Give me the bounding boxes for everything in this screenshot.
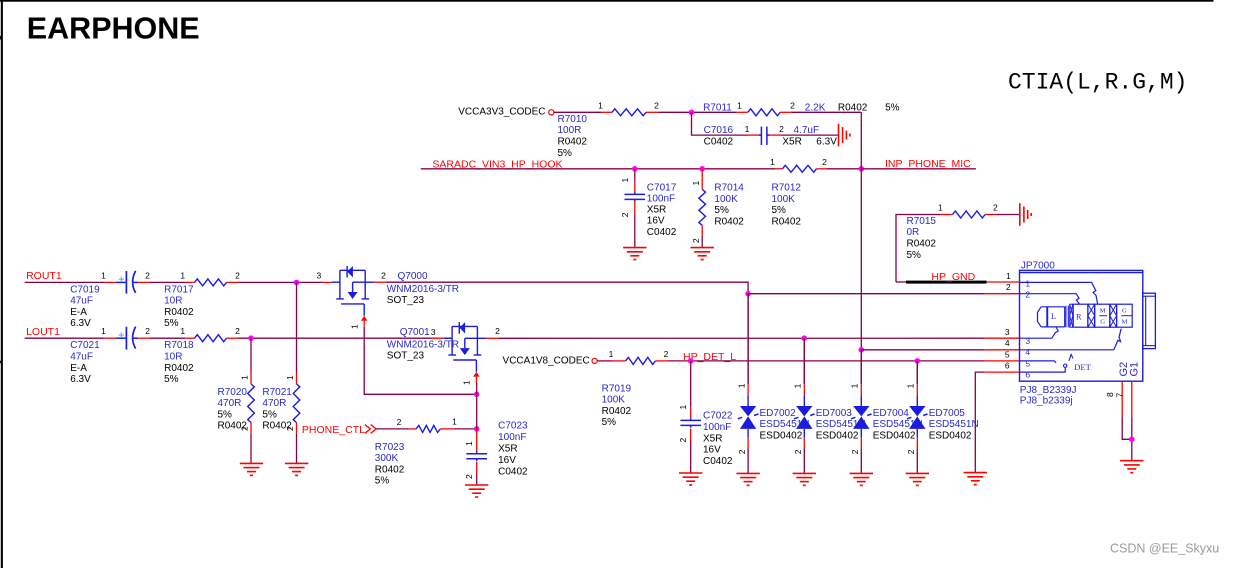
jack pin 3 leader: [1020, 328, 1059, 339]
pin 1 of R7015: [940, 214, 953, 216]
svg-text:R7017: R7017: [164, 284, 194, 295]
svg-text:ED7004: ED7004: [873, 408, 910, 419]
transistor Q7001: [444, 322, 486, 372]
ground under ED7005: [906, 473, 929, 485]
svg-text:ESD0402: ESD0402: [760, 430, 803, 441]
wire HP_GND: [896, 281, 907, 283]
svg-text:E-A: E-A: [70, 363, 87, 374]
junction INP_PHONE_MIC node: [859, 166, 865, 172]
svg-text:1: 1: [285, 375, 295, 380]
svg-text:C7019: C7019: [70, 284, 100, 295]
junction ED7005 tap: [915, 358, 921, 364]
ground after C7016 (rotated): [839, 124, 850, 147]
pin 1 of C7019: [105, 281, 116, 283]
junction pin4 branch: [859, 347, 865, 353]
wire HP_DET_L: [668, 360, 985, 362]
svg-text:6.3V: 6.3V: [70, 318, 91, 329]
wire G2 to G1 tie: [1122, 417, 1132, 440]
wire INP_PHONE_MIC stub: [861, 168, 976, 170]
svg-text:VCCA1V8_CODEC: VCCA1V8_CODEC: [503, 356, 590, 367]
resistor R7018: [195, 335, 227, 342]
svg-text:5: 5: [1025, 359, 1030, 369]
svg-text:1: 1: [350, 324, 360, 329]
junction ED7003 tap: [802, 335, 808, 341]
svg-text:5%: 5%: [714, 205, 729, 216]
svg-text:5%: 5%: [262, 409, 277, 420]
offpage connector PHONE_CTL: [365, 425, 376, 434]
svg-text:2: 2: [737, 449, 747, 454]
diode ED7004: [860, 350, 862, 384]
svg-text:ESD0402: ESD0402: [873, 430, 916, 441]
svg-text:R0402: R0402: [602, 406, 632, 417]
svg-text:R7019: R7019: [602, 383, 632, 394]
capacitor C7016: [759, 127, 769, 145]
pin 3 of Q7000: [323, 281, 332, 283]
wire to jack pin 4: [861, 349, 984, 351]
junction C7017 tap: [632, 166, 638, 172]
pin 1 of R7019: [613, 360, 626, 362]
pin 8 of JP7000: [1121, 381, 1123, 416]
wire C7019.2 to R7017.1: [149, 281, 185, 283]
svg-text:2: 2: [654, 101, 659, 111]
svg-text:470R: 470R: [262, 398, 286, 409]
wire C7017.1: [634, 169, 636, 181]
junction R7023/C7023 node: [474, 426, 480, 432]
jack plug tip L section: [1038, 307, 1042, 327]
svg-text:R0402: R0402: [907, 239, 937, 250]
svg-text:5%: 5%: [602, 417, 617, 428]
svg-text:7: 7: [1115, 393, 1125, 398]
jack plug G/M section: [1117, 304, 1133, 327]
wire C7022.2 to ground: [690, 441, 692, 473]
svg-text:2: 2: [691, 238, 701, 243]
svg-text:2: 2: [1025, 290, 1030, 300]
svg-text:R7021: R7021: [262, 387, 292, 398]
svg-text:2: 2: [790, 101, 795, 111]
svg-text:2: 2: [793, 449, 803, 454]
capacitor C7022: [680, 418, 701, 428]
svg-text:C0402: C0402: [498, 467, 528, 478]
svg-text:100K: 100K: [714, 194, 738, 205]
jack pin 6 leader with switch contact: [1020, 368, 1066, 373]
wire R7020 to ground: [250, 434, 252, 463]
capacitor C7023: [466, 451, 487, 461]
svg-text:5%: 5%: [558, 148, 573, 159]
svg-text:R7018: R7018: [164, 340, 194, 351]
svg-text:DET: DET: [1074, 362, 1091, 372]
svg-text:470R: 470R: [218, 398, 242, 409]
svg-text:3: 3: [1005, 327, 1010, 337]
jack plug hatch 2: [1110, 304, 1117, 327]
junction G tie: [1129, 437, 1135, 443]
svg-text:10R: 10R: [164, 352, 182, 363]
svg-text:16V: 16V: [703, 445, 721, 456]
svg-text:R0402: R0402: [218, 421, 248, 432]
wire C7023.2 to ground: [476, 475, 478, 485]
wire VCCA3V3_CODEC to R7010.1: [554, 111, 602, 113]
wire G1 to ground: [1131, 417, 1133, 461]
svg-text:5%: 5%: [164, 318, 179, 329]
svg-text:WNM2016-3/TR: WNM2016-3/TR: [387, 284, 459, 295]
svg-text:100nF: 100nF: [703, 422, 731, 433]
svg-text:1: 1: [938, 202, 943, 212]
svg-text:1: 1: [462, 380, 472, 385]
svg-text:2: 2: [145, 326, 150, 336]
pin 1 of C7022: [690, 407, 692, 418]
pin 1 of R7014: [701, 169, 703, 190]
wire R7021 to ground: [296, 434, 298, 463]
svg-text:2: 2: [145, 270, 150, 280]
junction jack pin 2 branch: [745, 291, 751, 297]
svg-text:R7012: R7012: [772, 183, 802, 194]
svg-text:ED7002: ED7002: [760, 408, 797, 419]
svg-text:100R: 100R: [558, 125, 582, 136]
jack pin 4 leader: [1020, 329, 1122, 350]
pin 1 of C7021: [105, 337, 116, 339]
svg-text:2: 2: [850, 449, 860, 454]
ground under ED7002: [736, 473, 759, 485]
svg-text:1: 1: [180, 270, 185, 280]
svg-text:M: M: [1100, 307, 1106, 314]
svg-text:4: 4: [1025, 347, 1030, 357]
svg-text:C7021: C7021: [70, 340, 100, 351]
svg-text:5: 5: [1005, 349, 1010, 359]
svg-text:R7010: R7010: [558, 114, 588, 125]
ground under R7014: [691, 248, 714, 260]
pin 2 of R7021: [296, 423, 298, 435]
pin 2 of R7020: [250, 423, 252, 435]
pin 2 of C7017: [634, 202, 636, 215]
wire ED7005 column upper: [916, 361, 918, 384]
svg-text:R7023: R7023: [375, 442, 405, 453]
jack plug R section: [1073, 304, 1088, 327]
junction node R7010/R7011/C7016: [689, 110, 695, 116]
svg-text:1: 1: [737, 101, 742, 111]
svg-text:47uF: 47uF: [70, 296, 93, 307]
svg-text:1: 1: [745, 124, 750, 134]
svg-text:G: G: [1122, 307, 1127, 314]
resistor R7019: [626, 357, 656, 364]
pin 1 of R7012: [775, 168, 783, 170]
svg-text:1: 1: [101, 270, 106, 280]
svg-text:R7015: R7015: [907, 216, 937, 227]
svg-text:6: 6: [1005, 361, 1010, 371]
svg-text:2: 2: [397, 417, 402, 427]
pin 2 of R7015: [985, 214, 996, 216]
pin 2 of C7021: [138, 337, 149, 339]
pin 2 of C7019: [138, 281, 149, 283]
page border frame: [0, 0, 1214, 2]
diode ED7002: [747, 294, 749, 384]
svg-text:ED7003: ED7003: [816, 408, 853, 419]
diode ED7003: [803, 338, 805, 384]
junction gate tie: [474, 392, 480, 398]
ground under ED7003: [793, 473, 816, 485]
svg-text:2: 2: [620, 212, 630, 217]
svg-text:1: 1: [180, 326, 185, 336]
svg-text:5%: 5%: [164, 374, 179, 385]
svg-text:2: 2: [664, 349, 669, 359]
transistor Q7000: [332, 266, 374, 316]
wire R7017.2 to Q7000.3: [238, 281, 323, 283]
pin 1 of C7023: [476, 429, 478, 452]
svg-text:1: 1: [793, 383, 803, 388]
svg-text:EARPHONE: EARPHONE: [27, 12, 200, 46]
pin 3 of Q7001: [432, 337, 453, 339]
ground pin6: [964, 473, 987, 485]
wire SARADC_VIN3_HP_HOOK: [421, 168, 775, 170]
svg-text:ED7005: ED7005: [929, 408, 966, 419]
ground after R7015 (rotated): [1020, 203, 1031, 226]
svg-text:1: 1: [240, 375, 250, 380]
net HP_GND thick bus: [906, 281, 987, 284]
svg-text:PHONE_CTL: PHONE_CTL: [302, 424, 365, 436]
wire ED7002 column upper: [747, 294, 749, 384]
svg-text:1: 1: [678, 405, 688, 410]
pin 2 of C7016: [768, 134, 781, 136]
resistor R7017: [195, 279, 227, 286]
pin 2 of R7019: [656, 360, 669, 362]
port VCCA3V3_CODEC: [549, 110, 554, 115]
svg-text:1: 1: [770, 157, 775, 167]
wire net INP_PHONE_MIC vertical: [792, 111, 862, 113]
svg-text:SOT_23: SOT_23: [387, 295, 425, 306]
svg-text:1: 1: [850, 383, 860, 388]
ground under jack: [1120, 461, 1143, 473]
resistor R7021: [293, 384, 300, 423]
wire R7014.2 to ground: [701, 236, 703, 247]
pin 1 of R7021: [296, 373, 298, 385]
svg-text:C7017: C7017: [647, 182, 677, 193]
jack pin 1 leader: [1020, 282, 1098, 304]
svg-text:R0402: R0402: [558, 137, 588, 148]
capacitor C7017: [625, 192, 646, 202]
resistor R7012: [783, 165, 817, 172]
wire Q7001.2 to jack pin 3: [499, 337, 985, 339]
wire ROUT1: [25, 281, 105, 283]
svg-text:R: R: [1076, 312, 1082, 321]
pin 1 of C7016: [749, 134, 760, 136]
svg-text:Q7001: Q7001: [400, 327, 430, 338]
jack plug hatch 1: [1088, 304, 1095, 327]
svg-text:C0402: C0402: [704, 136, 734, 147]
pin 2 of R7023: [408, 428, 416, 430]
pin 1 of R7023: [441, 428, 455, 430]
resistor R7014: [699, 189, 706, 225]
resistor R7010: [612, 109, 646, 116]
jack plug collar: [1066, 306, 1068, 328]
svg-text:4: 4: [1005, 338, 1010, 348]
wire R7023.1 to gate node: [454, 428, 477, 430]
svg-text:16V: 16V: [647, 216, 665, 227]
wire Q7000 gate to tie: [364, 327, 477, 394]
svg-text:R0402: R0402: [772, 216, 802, 227]
svg-text:1: 1: [1006, 271, 1011, 281]
svg-text:2: 2: [495, 326, 500, 336]
svg-text:5%: 5%: [772, 205, 787, 216]
svg-text:Q7000: Q7000: [398, 271, 428, 282]
wire VCCA1V8 to R7019: [597, 360, 612, 362]
pin 1 of R7018: [185, 337, 195, 339]
svg-text:M: M: [1121, 319, 1127, 326]
svg-text:5%: 5%: [218, 409, 233, 420]
pin 2 of C7022: [690, 429, 692, 441]
svg-text:16V: 16V: [498, 455, 516, 466]
svg-text:5%: 5%: [375, 476, 390, 487]
svg-text:C7016: C7016: [704, 125, 734, 136]
capacitor C7019 (polarized): [116, 271, 138, 294]
pin 2 of R7014: [701, 225, 703, 236]
svg-text:100K: 100K: [602, 395, 626, 406]
pin 1 of R7020: [250, 373, 252, 385]
pin 2 of R7012: [817, 168, 828, 170]
pin 1 of R7010: [602, 111, 612, 113]
wire jack pin 6 to ground: [985, 371, 1020, 373]
svg-text:VCCA3V3_CODEC: VCCA3V3_CODEC: [458, 107, 545, 118]
connector JP7000 body: [1020, 270, 1156, 381]
svg-text:2: 2: [381, 270, 386, 280]
svg-text:2: 2: [779, 124, 784, 134]
pin 7 of JP7000: [1131, 381, 1133, 416]
wire R7021 top: [296, 282, 298, 372]
resistor R7020: [248, 384, 255, 423]
wire Q7000.2 to jack pin 2: [386, 282, 748, 294]
svg-text:X5R: X5R: [647, 205, 666, 216]
svg-text:300K: 300K: [375, 453, 399, 464]
wire LOUT1: [25, 337, 105, 339]
wire R7018.2 to Q7001.3: [238, 337, 432, 339]
svg-text:ESD5451N: ESD5451N: [929, 419, 979, 430]
wire C7022 top: [690, 361, 692, 407]
pin 2 of Q7000: [374, 281, 387, 283]
svg-text:100nF: 100nF: [647, 194, 675, 205]
ground under ED7004: [850, 473, 873, 485]
junction C7022 tap: [688, 358, 694, 364]
pin 2 of R7017: [227, 281, 239, 283]
junction R7020 tap: [248, 335, 254, 341]
wire R7010.2 to R7011.1: [658, 111, 736, 113]
wire C7021.2 to R7018.1: [149, 337, 185, 339]
svg-text:100K: 100K: [772, 194, 796, 205]
svg-text:HP_GND: HP_GND: [931, 271, 975, 283]
svg-text:R7020: R7020: [218, 387, 248, 398]
svg-text:2: 2: [906, 449, 916, 454]
pin 2 of R7018: [227, 337, 239, 339]
svg-text:47uF: 47uF: [70, 352, 93, 363]
svg-text:R7011: R7011: [703, 102, 732, 113]
svg-text:1: 1: [906, 383, 916, 388]
wire HP_GND to jack pin 1: [987, 281, 1020, 283]
svg-text:2: 2: [235, 326, 240, 336]
svg-text:2: 2: [822, 157, 827, 167]
ground under C7022: [679, 473, 702, 485]
svg-text:R7014: R7014: [714, 183, 744, 194]
svg-text:C0402: C0402: [703, 456, 733, 467]
svg-text:WNM2016-3/TR: WNM2016-3/TR: [387, 340, 459, 351]
svg-text:ESD0402: ESD0402: [816, 430, 859, 441]
svg-text:2: 2: [235, 270, 240, 280]
pin 2 of R7010: [646, 111, 658, 113]
pin 2 of Q7001: [486, 337, 499, 339]
wire PHONE_CTL to R7023: [376, 428, 408, 430]
wire ED7003 column upper: [803, 338, 805, 384]
svg-text:10R: 10R: [164, 296, 182, 307]
svg-text:1: 1: [609, 349, 614, 359]
svg-text:1: 1: [452, 417, 457, 427]
svg-text:ESD0402: ESD0402: [929, 430, 972, 441]
svg-text:2: 2: [1006, 282, 1011, 292]
ground under C7017: [623, 248, 646, 260]
svg-text:5%: 5%: [907, 250, 922, 261]
jack plug M/G section: [1095, 304, 1110, 327]
svg-text:3: 3: [431, 327, 436, 337]
svg-text:R0402: R0402: [375, 464, 405, 475]
wire gate tie vertical: [476, 383, 478, 429]
svg-text:1: 1: [737, 383, 747, 388]
wire junction to C7016.1: [692, 112, 749, 135]
svg-text:1: 1: [464, 441, 474, 446]
svg-text:R0402: R0402: [262, 421, 292, 432]
wire C7017.2 to ground: [634, 214, 636, 247]
ground under R7021: [285, 463, 308, 475]
svg-text:R0402: R0402: [714, 216, 744, 227]
svg-text:L: L: [1051, 312, 1056, 321]
wire to jack pin 2: [748, 293, 984, 295]
svg-text:CSDN @EE_Skyxu: CSDN @EE_Skyxu: [1110, 541, 1219, 555]
pin 2 of R7011: [780, 111, 792, 113]
svg-text:6.3V: 6.3V: [816, 136, 837, 147]
wire R7015.2 to ground: [996, 214, 1019, 216]
svg-text:R0402: R0402: [164, 363, 194, 374]
port VCCA1V8_CODEC: [592, 358, 597, 363]
wire C7016.2 to ground: [781, 134, 838, 136]
svg-text:PJ8_b2339j: PJ8_b2339j: [1020, 395, 1073, 406]
diode ED7005: [916, 361, 918, 384]
svg-text:E-A: E-A: [70, 307, 87, 318]
ground under C7023: [465, 485, 488, 497]
svg-text:3: 3: [317, 270, 322, 280]
pin 1 of R7011: [736, 111, 748, 113]
svg-text:ROUT1: ROUT1: [26, 270, 62, 282]
svg-text:2: 2: [678, 438, 688, 443]
pin 2 of C7023: [476, 462, 478, 475]
svg-text:1: 1: [101, 326, 106, 336]
svg-text:1: 1: [598, 101, 603, 111]
svg-text:5%: 5%: [885, 102, 900, 113]
svg-text:X5R: X5R: [498, 444, 517, 455]
svg-text:2: 2: [993, 202, 998, 212]
ground under R7020: [240, 463, 263, 475]
svg-text:X5R: X5R: [782, 136, 801, 147]
svg-text:0R: 0R: [907, 227, 920, 238]
svg-text:1: 1: [620, 178, 630, 183]
svg-text:CTIA(L,R.G,M): CTIA(L,R.G,M): [1008, 70, 1187, 96]
junction R7021 tap: [294, 280, 300, 286]
svg-text:3: 3: [1025, 336, 1030, 346]
capacitor C7021 (polarized): [116, 327, 138, 350]
svg-text:LOUT1: LOUT1: [26, 326, 60, 338]
jack pin 2 leader: [1020, 294, 1080, 305]
resistor R7015: [953, 211, 986, 218]
svg-text:1: 1: [1025, 278, 1030, 288]
svg-text:INP_PHONE_MIC: INP_PHONE_MIC: [885, 158, 971, 170]
svg-text:1: 1: [691, 181, 701, 186]
wire R7015 left lead: [896, 215, 940, 283]
svg-text:C0402: C0402: [647, 227, 677, 238]
jack pin 5 leader: [1020, 361, 1057, 363]
svg-text:G: G: [1100, 319, 1105, 326]
svg-text:6: 6: [1025, 369, 1030, 379]
